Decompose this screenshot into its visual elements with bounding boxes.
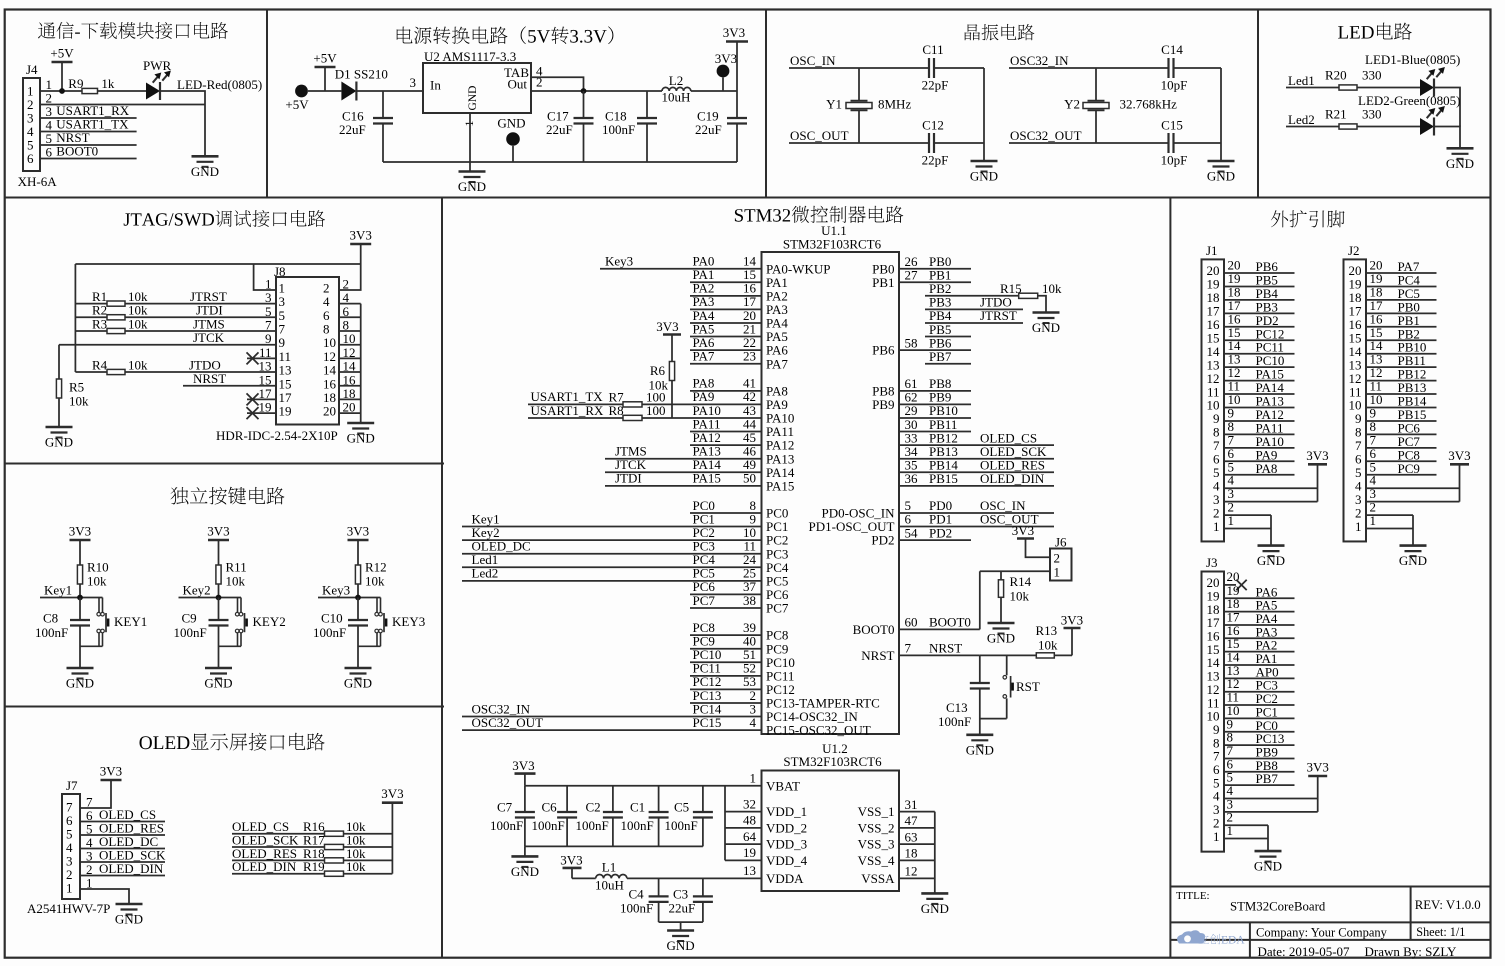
resistor R6 10k pullup USART1_RX (649, 319, 682, 418)
wire J2 pin4 3V3 (1366, 473, 1460, 489)
svg-text:3V3: 3V3 (1061, 613, 1083, 628)
U1.1 pin 3 PC14 net OSC32_IN (462, 701, 858, 724)
title block Date / Drawn By (1258, 944, 1457, 959)
resistor R9 1k (68, 76, 115, 94)
svg-text:OSC32_OUT: OSC32_OUT (1010, 128, 1082, 143)
wire J2 pin8 PC6 (1366, 419, 1437, 436)
svg-text:PC15-OSC32_OUT: PC15-OSC32_OUT (766, 723, 871, 738)
svg-text:3V3: 3V3 (100, 764, 122, 779)
svg-text:3V3: 3V3 (715, 51, 737, 66)
resistor R10 10k (77, 560, 108, 598)
resistor R21 330 (1325, 107, 1420, 130)
U1.1 pin 21 PA5 (690, 321, 788, 344)
svg-text:J6: J6 (1055, 535, 1067, 550)
svg-text:R11: R11 (226, 560, 247, 575)
svg-text:Company: Your Company: Company: Your Company (1256, 925, 1388, 939)
U1.1 right row PB8 (872, 376, 971, 398)
wire J3 pin3 3V3 (1224, 776, 1318, 812)
wire J2 pin13 PB11 (1366, 352, 1437, 369)
svg-text:3V3: 3V3 (1012, 523, 1034, 538)
U1.1 right row PB5 (925, 322, 971, 337)
power 3V3 rail (key1) (69, 524, 91, 566)
MCU U1.2 STM32F103RCT6 body (762, 741, 900, 891)
U1.1 pin 39 PC8 (690, 620, 788, 643)
power +5V rail (block1) (50, 46, 74, 92)
svg-text:R4: R4 (92, 357, 108, 372)
svg-text:A2541HWV-7P: A2541HWV-7P (27, 901, 110, 916)
svg-text:GND: GND (970, 169, 998, 184)
svg-text:GND: GND (1207, 169, 1235, 184)
pushbutton KEY3 (358, 598, 425, 647)
inductor L2 10uH (662, 73, 691, 105)
svg-text:VDDA: VDDA (766, 871, 804, 886)
svg-text:C8: C8 (43, 611, 58, 626)
svg-text:100nF: 100nF (313, 625, 346, 640)
svg-text:TITLE:: TITLE: (1176, 890, 1210, 902)
svg-text:50: 50 (743, 471, 756, 486)
wire J1 pin12 PA15 (1224, 365, 1295, 382)
svg-text:PD2: PD2 (929, 525, 952, 540)
svg-text:32: 32 (743, 796, 756, 811)
capacitor C10 100nF (313, 598, 368, 669)
wire J7 OLED_DC (80, 834, 165, 849)
ground GND (C7) (511, 846, 539, 879)
wire OSC32_IN (1009, 53, 1221, 68)
svg-text:REV: V1.0.0: REV: V1.0.0 (1415, 898, 1481, 912)
capacitor C15 10pF (1161, 118, 1188, 168)
svg-text:19: 19 (743, 845, 756, 860)
wire J1 pin15 PC12 (1224, 325, 1295, 342)
svg-text:10k: 10k (128, 357, 148, 372)
resistor R5 10k pulldown (56, 345, 89, 427)
svg-text:100nF: 100nF (35, 625, 68, 640)
connector J2 body (1344, 243, 1367, 542)
svg-text:PB15: PB15 (929, 471, 958, 486)
svg-text:4: 4 (750, 715, 757, 730)
U1.1 pin 23 PA7 (690, 348, 788, 371)
U1.1 pin 4 PC15 net OSC32_OUT (462, 715, 871, 738)
svg-text:GND: GND (1399, 553, 1427, 568)
ground GND (VSS) (921, 893, 949, 916)
svg-text:63: 63 (905, 829, 918, 844)
wire 3V3 rail to VBAT (525, 785, 762, 787)
no-connect J3 pin20 (1224, 569, 1247, 590)
svg-text:PA7: PA7 (766, 356, 788, 371)
wire J4.6 BOOT0 (40, 144, 137, 159)
wire J2 pin15 PB2 (1366, 325, 1437, 342)
svg-text:1: 1 (265, 277, 272, 292)
svg-text:L1: L1 (602, 860, 616, 875)
svg-text:PC7: PC7 (693, 593, 716, 608)
svg-text:Drawn By: SZLY: Drawn By: SZLY (1365, 944, 1457, 959)
U1.1 right row PB6 (872, 335, 971, 357)
svg-text:GND: GND (66, 676, 94, 691)
svg-text:13: 13 (279, 363, 292, 378)
ground GND (key3) (344, 668, 372, 691)
svg-text:+5V: +5V (285, 97, 309, 112)
resistor R4 10k / wire JTDO (75, 357, 276, 374)
wire J2 pin17 PB0 (1366, 298, 1437, 315)
svg-text:OSC_OUT: OSC_OUT (790, 128, 849, 143)
svg-text:1: 1 (1355, 519, 1362, 534)
svg-text:JTRST: JTRST (980, 308, 1017, 323)
U1.1 pin 37 PC6 (690, 579, 789, 602)
capacitor C11 22pF (922, 42, 949, 93)
wire Key2 (179, 583, 242, 601)
svg-text:100: 100 (646, 403, 666, 418)
wire J3 pin19 PA6 (1224, 583, 1295, 600)
svg-text:J7: J7 (66, 778, 78, 793)
svg-text:22uF: 22uF (669, 901, 696, 916)
svg-text:PC7: PC7 (766, 601, 789, 616)
wire J1 pin13 PC10 (1224, 352, 1295, 369)
svg-text:STM32CoreBoard: STM32CoreBoard (1230, 900, 1326, 914)
U1.1 pin 11 PC3 net OLED_DC (462, 538, 788, 561)
title block TITLE text (1176, 890, 1210, 902)
svg-text:C4: C4 (629, 887, 645, 902)
wire J3 pin17 PA4 (1224, 609, 1295, 626)
resistor R15 10k (PB2 pulldown) (925, 281, 1062, 313)
wire crystal right rail (Y1) (983, 68, 985, 161)
svg-text:USART1_RX: USART1_RX (531, 403, 605, 418)
wire J1 pin4 3V3 (1224, 473, 1318, 489)
svg-text:GND: GND (987, 631, 1015, 646)
svg-text:10k: 10k (226, 574, 246, 589)
svg-text:GND: GND (1032, 320, 1060, 335)
svg-text:Led1: Led1 (1288, 73, 1315, 88)
svg-text:VBAT: VBAT (766, 778, 800, 793)
wire J2 pin16 PB1 (1366, 311, 1437, 328)
power 3V3 rail (key2) (207, 524, 229, 566)
wire OSC_OUT (789, 128, 984, 143)
svg-text:10k: 10k (365, 574, 385, 589)
svg-text:GND: GND (45, 435, 73, 450)
ground GND (block2) (458, 162, 486, 194)
power +5V rail (block2) (313, 51, 337, 92)
U1.1 right row PB11 (899, 417, 971, 432)
wire J1 pin18 PB4 (1224, 284, 1295, 301)
U1.1 right row PB13 net OLED_SCK (899, 444, 1054, 459)
svg-text:VDD_4: VDD_4 (766, 853, 808, 868)
svg-text:VSS_1: VSS_1 (858, 804, 895, 819)
svg-text:3V3: 3V3 (381, 786, 403, 801)
power 3V3 rail (J1) (1306, 448, 1328, 465)
svg-text:1: 1 (1213, 519, 1220, 534)
svg-text:100nF: 100nF (602, 122, 635, 137)
U1.1 right row PB15 net OLED_DIN (899, 471, 1054, 486)
svg-text:22pF: 22pF (922, 153, 949, 168)
svg-text:LED2-Green(0805): LED2-Green(0805) (1358, 93, 1461, 108)
resistor R20 330 (1325, 68, 1420, 91)
svg-text:Led2: Led2 (472, 566, 499, 581)
ground GND (J2) (1399, 546, 1427, 569)
svg-text:3V3: 3V3 (69, 524, 91, 539)
capacitor C3 22uF (669, 878, 713, 922)
svg-text:PA8: PA8 (1256, 461, 1278, 476)
svg-text:D1 SS210: D1 SS210 (335, 67, 388, 82)
svg-text:10uH: 10uH (662, 90, 691, 105)
svg-text:KEY2: KEY2 (253, 614, 286, 629)
U1.1 pin 22 PA6 (690, 335, 788, 358)
svg-text:PB1: PB1 (872, 275, 894, 290)
wire JTAG left rail (74, 264, 76, 372)
svg-text:22pF: 22pF (922, 78, 949, 93)
resistor R13 10k (1036, 623, 1073, 658)
no-connect J8 pin19 (247, 407, 277, 419)
resistor R17 10k pullup OLED_SCK (232, 833, 392, 850)
U1.1 right row PB10 (899, 403, 971, 418)
wire J7 OLED_CS (80, 807, 165, 822)
svg-text:47: 47 (905, 813, 919, 828)
svg-text:U2 AMS1117-3.3: U2 AMS1117-3.3 (424, 49, 516, 64)
svg-text:GND: GND (1254, 859, 1282, 874)
capacitor C5 100nF (665, 786, 713, 847)
wire J8 even pins rail (339, 304, 361, 423)
wire J1 pin5 PA8 (1224, 459, 1295, 476)
wire J7 OLED_RES (80, 821, 165, 836)
section title 晶振电路 (965, 24, 1035, 41)
pushbutton KEY1 (80, 598, 147, 647)
pushbutton RST (1003, 655, 1040, 718)
section title JTAG/SWD调试接口电路 (124, 210, 325, 227)
svg-text:12: 12 (905, 864, 918, 879)
wire J1 pin1 GND (1224, 513, 1271, 546)
U1.1 right row PB1 (872, 267, 971, 289)
svg-text:C9: C9 (182, 611, 197, 626)
svg-text:31: 31 (905, 797, 918, 812)
svg-text:R8: R8 (609, 403, 624, 418)
svg-text:R9: R9 (68, 76, 83, 91)
svg-text:10k: 10k (87, 574, 107, 589)
connector J7 A2541HWV-7P (27, 778, 110, 916)
svg-text:OSC_IN: OSC_IN (790, 53, 836, 68)
svg-text:100nF: 100nF (620, 901, 653, 916)
section title OLED显示屏接口电路 (140, 733, 325, 751)
svg-text:KEY3: KEY3 (392, 614, 425, 629)
title block REV (1415, 898, 1481, 912)
svg-text:OSC32_IN: OSC32_IN (1010, 53, 1069, 68)
svg-text:STM32F103RCT6: STM32F103RCT6 (783, 237, 882, 252)
wire J3 pin4 3V3 (1224, 783, 1318, 799)
svg-text:R20: R20 (1325, 68, 1347, 83)
svg-text:VDD_1: VDD_1 (766, 804, 807, 819)
wire J3 pin5 PB7 (1224, 770, 1295, 787)
power port +5V circle (285, 85, 341, 112)
wire J1 pin16 PD2 (1224, 311, 1295, 328)
svg-text:VSSA: VSSA (861, 871, 895, 886)
wire C13/RST bottom (980, 718, 1007, 720)
capacitor C2 100nF (576, 786, 623, 847)
wire JTAG top 3V3 net (75, 263, 360, 265)
svg-text:VDD_3: VDD_3 (766, 837, 807, 852)
resistor R18 10k pullup OLED_RES (232, 846, 392, 863)
U1.1 pin 8 PC0 (690, 498, 788, 521)
wire Key1 (40, 583, 103, 601)
svg-text:54: 54 (905, 525, 919, 540)
wire J2 pin7 PC7 (1366, 432, 1437, 449)
wire J1 pin9 PA12 (1224, 405, 1295, 422)
ground GND (Y1) (970, 161, 998, 184)
svg-text:C14: C14 (1161, 42, 1183, 57)
resistor R14 10k (998, 571, 1031, 623)
svg-text:R13: R13 (1036, 623, 1058, 638)
U1.1 right row PB9 (872, 390, 971, 412)
svg-text:C3: C3 (673, 887, 688, 902)
svg-text:100nF: 100nF (576, 818, 609, 833)
svg-text:L2: L2 (669, 73, 683, 88)
U1.1 pin 14 PA0 net Key3 (600, 254, 831, 277)
power 3V3 rail (U1.2 VDD) (512, 758, 535, 786)
svg-text:RST: RST (1016, 679, 1040, 694)
svg-text:36: 36 (905, 471, 919, 486)
U1.1 right row PB7 (925, 349, 971, 364)
wire J2 pin10 PB14 (1366, 392, 1437, 409)
svg-text:3V3: 3V3 (656, 319, 678, 334)
svg-text:BOOT0: BOOT0 (853, 622, 895, 637)
svg-text:3: 3 (410, 75, 417, 90)
resistor R7 100 (USART1_TX) (609, 390, 666, 407)
U1.1 pin 41 PA8 (690, 376, 788, 399)
svg-text:R6: R6 (650, 363, 666, 378)
wire J3 pin6 PB8 (1224, 756, 1295, 773)
U1.1 pin 53 PC12 (690, 674, 795, 697)
resistor R16 10k pullup OLED_CS (232, 819, 392, 836)
power 3V3 rail (VDDA) (560, 853, 582, 879)
wire J2 pin18 PC5 (1366, 284, 1437, 301)
wire L2 to 3V3 (691, 90, 737, 92)
wire J4.5 NRST (40, 130, 137, 145)
wire J3 pin18 PA5 (1224, 596, 1295, 613)
wire J3 pin1 GND (1224, 823, 1268, 851)
svg-text:GND: GND (115, 912, 143, 927)
svg-text:+5V: +5V (50, 46, 74, 61)
wire J8 pin2 to 3V3 (339, 264, 361, 290)
title block board name (1230, 900, 1326, 914)
svg-text:100nF: 100nF (174, 625, 207, 640)
svg-text:R14: R14 (1010, 574, 1032, 589)
section title LED电路 (1338, 23, 1412, 40)
svg-text:PWR: PWR (143, 58, 172, 73)
svg-text:GND: GND (966, 742, 994, 757)
svg-text:GND: GND (497, 116, 525, 131)
U1.1 pin 44 PA11 (690, 416, 794, 439)
wire J2 pin3 3V3 (1366, 464, 1460, 501)
svg-text:2: 2 (1054, 551, 1061, 566)
power port GND circle (block2) (497, 116, 525, 163)
U1.1 pin 7 NRST (861, 641, 980, 663)
ground GND (block1) (191, 156, 219, 179)
power 3V3 rail (J7) (100, 764, 122, 781)
svg-text:GND: GND (921, 901, 949, 916)
svg-text:Date: 2019-05-07: Date: 2019-05-07 (1258, 944, 1351, 959)
wire J1 pin2 GND (1224, 500, 1271, 515)
svg-text:C1: C1 (630, 800, 645, 815)
U1.1 pin 52 PC11 (690, 661, 794, 684)
U1.1 pin 50 PA15 net JTDI (605, 471, 794, 494)
resistor R11 10k (216, 560, 247, 598)
U1.1 pin 45 PA12 (690, 430, 794, 453)
svg-text:60: 60 (905, 615, 918, 630)
ground GND (J1) (1257, 546, 1285, 569)
svg-text:22uF: 22uF (546, 122, 573, 137)
svg-text:GND: GND (458, 179, 486, 194)
U1.1 pin 51 PC10 (690, 647, 795, 670)
ground GND (Y2) (1207, 161, 1235, 184)
svg-text:1: 1 (1227, 823, 1234, 838)
svg-text:GND: GND (467, 86, 479, 111)
svg-text:VSS_3: VSS_3 (858, 837, 895, 852)
svg-text:23: 23 (743, 348, 756, 363)
svg-text:10pF: 10pF (1161, 153, 1188, 168)
regulator U2 AMS1117-3.3 (410, 49, 544, 127)
U1.1 right row PB14 net OLED_RES (899, 457, 1054, 472)
svg-text:3V3: 3V3 (723, 25, 745, 40)
capacitor C16 22uF (339, 91, 393, 162)
svg-text:1k: 1k (101, 76, 115, 91)
capacitor C7 100nF (490, 786, 535, 847)
wire decoupling bottom rail (525, 845, 703, 847)
svg-text:3V3: 3V3 (512, 758, 534, 773)
svg-text:LED-Red(0805): LED-Red(0805) (177, 77, 262, 92)
connector J1 body (1202, 243, 1225, 542)
capacitor C4 100nF (620, 878, 669, 922)
svg-text:In: In (430, 78, 441, 93)
wire C4/C3 bottom (659, 922, 703, 930)
wire J2 pin9 PB15 (1366, 405, 1437, 422)
section title 通信-下载模块接口电路 (38, 22, 228, 39)
svg-text:VSS_2: VSS_2 (858, 821, 895, 836)
title block frame (1170, 887, 1490, 958)
wire LED cathode to GND rail (block1) (160, 91, 205, 156)
wire Led2 (1286, 112, 1339, 127)
svg-text:GND: GND (511, 864, 539, 879)
svg-text:3V3: 3V3 (207, 524, 229, 539)
crystal Y2 32.768kHz (1064, 68, 1177, 143)
wire U2 GND pin1 (469, 113, 471, 162)
svg-text:GND: GND (347, 431, 375, 446)
wire J3 pin16 PA3 (1224, 623, 1295, 640)
wire J1 pin19 PB5 (1224, 271, 1295, 288)
wire J4.1 +5V to R9 (40, 88, 82, 94)
U1.1 pin 10 PC2 net Key2 (462, 525, 788, 548)
svg-text:JTDO: JTDO (189, 357, 221, 372)
svg-text:1: 1 (750, 771, 757, 786)
U1.1 pin 42 PA9 net USART1_TX (528, 389, 788, 412)
svg-text:100nF: 100nF (938, 714, 971, 729)
wire J8 pin1 to 3V3 (254, 264, 276, 290)
wire JTCK (59, 330, 276, 345)
power 3V3 rail (key3) (347, 524, 369, 566)
ground GND (C13) (966, 735, 994, 758)
svg-text:10pF: 10pF (1161, 78, 1188, 93)
U1.1 pin 20 PA4 (690, 308, 788, 331)
wire LED2 cathode to GND (1434, 127, 1460, 149)
wire OSC_IN (789, 53, 984, 68)
wire J2 pin19 PC4 (1366, 271, 1437, 288)
wire J2 pin14 PB10 (1366, 338, 1437, 355)
svg-text:KEY1: KEY1 (114, 614, 147, 629)
wire J3 pin15 PA2 (1224, 636, 1295, 653)
MCU U1.1 STM32F103RCT6 body (762, 223, 900, 734)
resistor R1 10k / wire JTRST (75, 289, 276, 306)
svg-text:C7: C7 (497, 800, 513, 815)
section title STM32微控制器电路 (735, 206, 903, 223)
U1.1 pin 60 BOOT0 (853, 615, 980, 637)
capacitor C18 100nF (602, 91, 657, 162)
wire R9 to LED PWR (98, 90, 147, 92)
wire J6 pin1 / R14 junction (980, 570, 1050, 572)
svg-text:GND: GND (1257, 553, 1285, 568)
